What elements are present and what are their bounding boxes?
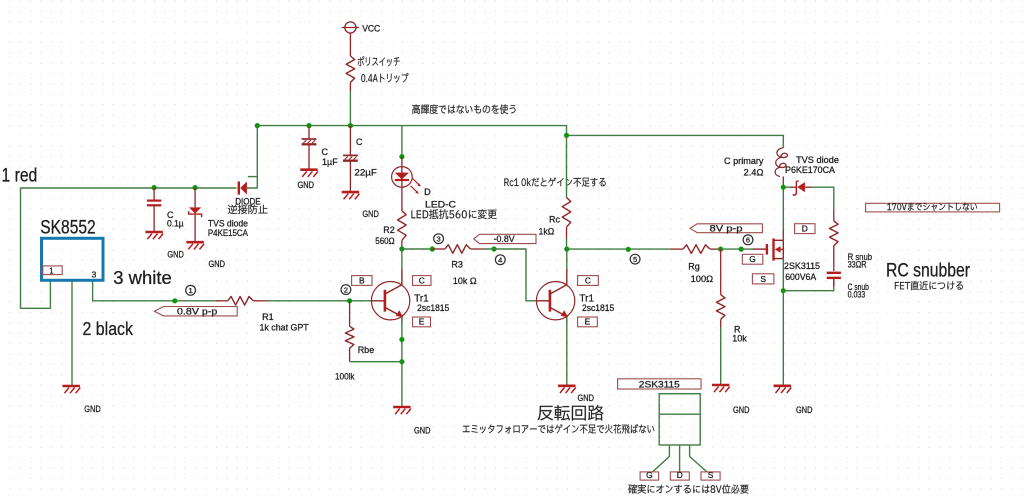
node emitter b <box>399 359 404 364</box>
pin box G pkg <box>640 472 659 480</box>
node flag1 <box>172 298 177 303</box>
resistor R snub <box>833 210 835 221</box>
svg-text:6: 6 <box>746 236 750 245</box>
svg-text:GND: GND <box>298 180 315 190</box>
transistor Tr1 second 2sc1815 <box>536 282 574 320</box>
ground C0.1u <box>145 231 162 234</box>
ground source <box>774 384 791 387</box>
node R3 right <box>491 246 496 251</box>
svg-text:S: S <box>760 274 766 284</box>
svg-text:5: 5 <box>633 255 637 264</box>
svg-text:GND: GND <box>733 405 750 415</box>
svg-text:1: 1 <box>49 266 53 275</box>
svg-text:Rc: Rc <box>549 215 560 225</box>
node bus left <box>255 123 260 128</box>
tvs diode D2 P4KE15CA <box>194 188 196 208</box>
node TVS1 top <box>193 185 198 190</box>
node R3 left <box>430 246 435 251</box>
svg-text:1kΩ: 1kΩ <box>539 227 555 237</box>
label high-brightness note <box>412 104 515 114</box>
svg-text:GND: GND <box>578 393 595 403</box>
node Rg right <box>718 247 723 252</box>
node emitter a <box>399 337 404 342</box>
svg-text:R3: R3 <box>451 259 463 269</box>
svg-text:600V6A: 600V6A <box>785 272 816 282</box>
capacitor C 22uF <box>349 126 351 155</box>
svg-text:GND: GND <box>167 249 184 259</box>
svg-text:Rg: Rg <box>688 262 700 272</box>
pin box G <box>742 254 763 264</box>
ic SK8552 body <box>42 238 104 280</box>
mosfet Q1 2SK3115 <box>741 248 753 250</box>
svg-text:G: G <box>749 254 756 264</box>
svg-text:R1: R1 <box>262 312 274 322</box>
wire R1 to base <box>267 300 372 302</box>
svg-text:LED-C: LED-C <box>425 199 457 209</box>
label 0.4A trip <box>361 73 408 83</box>
node 6 <box>743 235 753 245</box>
wire Rc to Rg <box>567 248 671 250</box>
svg-text:D: D <box>424 187 431 197</box>
resistor R2 560 <box>398 211 407 240</box>
wire Tr2 emitter <box>566 317 568 385</box>
pin box E Tr1 <box>413 317 431 327</box>
svg-text:RC snubber: RC snubber <box>886 260 970 281</box>
svg-text:0.033: 0.033 <box>848 290 866 300</box>
capacitor C 1uF <box>308 126 310 139</box>
inductor C primary <box>775 148 787 177</box>
svg-text:4: 4 <box>498 256 502 265</box>
wire R to gnd <box>720 327 722 384</box>
svg-text:22µF: 22µF <box>354 167 377 177</box>
resistor R3 10k <box>432 248 445 250</box>
label gyakusetsu-boushi <box>228 205 268 214</box>
svg-text:R2: R2 <box>383 225 395 235</box>
node gate <box>739 247 744 252</box>
wire bus to LED <box>401 126 403 157</box>
wire source <box>782 259 784 291</box>
pin box E Tr2 <box>578 317 598 327</box>
svg-text:GND: GND <box>209 259 226 269</box>
wire SK pin3 to R1 <box>93 281 216 301</box>
flag -0.8V <box>474 234 536 243</box>
pin box S pkg <box>701 472 720 480</box>
wire tvs to snubber <box>812 187 834 210</box>
flag 0.8V p-p <box>154 307 237 316</box>
svg-text:E: E <box>419 317 425 327</box>
ground C1uF <box>300 168 317 171</box>
wire Rc bottom <box>566 238 568 249</box>
svg-text:1k chat GPT: 1k chat GPT <box>260 323 310 333</box>
svg-text:560Ω: 560Ω <box>375 236 395 246</box>
svg-text:3: 3 <box>436 235 440 244</box>
label polyswitch <box>358 56 400 66</box>
ground Tr1 <box>393 406 410 409</box>
package leg D <box>679 445 681 472</box>
svg-text:SK8552: SK8552 <box>40 216 95 238</box>
label 8V required <box>628 484 748 493</box>
wire SK pin2 to gnd <box>71 281 73 386</box>
svg-text:8V p-p: 8V p-p <box>710 223 743 233</box>
svg-text:GND: GND <box>796 405 813 415</box>
svg-text:2sc1815: 2sc1815 <box>417 303 449 313</box>
svg-text:C: C <box>356 137 363 147</box>
node 5 dot <box>626 247 631 252</box>
node bus C1u <box>306 123 311 128</box>
pin box B Tr1 <box>352 276 372 286</box>
wire snubber return <box>833 279 835 287</box>
transistor Tr1 first 2sc1815 <box>371 282 409 320</box>
svg-text:2 black: 2 black <box>83 318 134 339</box>
diode D1 reverse protection <box>238 181 240 194</box>
node source <box>781 288 786 293</box>
svg-text:P4KE15CA: P4KE15CA <box>208 228 248 238</box>
svg-text:2sc1815: 2sc1815 <box>582 303 614 313</box>
pin box S <box>752 274 774 284</box>
wire top bus <box>257 126 783 148</box>
flag 8V p-p <box>690 224 762 233</box>
svg-text:TVS diode: TVS diode <box>796 155 839 165</box>
node 1 <box>186 285 196 295</box>
svg-text:D: D <box>677 470 683 480</box>
resistor Rc 1k <box>566 135 568 197</box>
wire Tr1 emitter <box>401 317 403 407</box>
wire R3 to Tr2 base <box>483 249 538 301</box>
node LED top <box>399 154 404 159</box>
svg-text:10k: 10k <box>732 333 747 343</box>
label 2SK3115 box <box>618 379 701 389</box>
led light arrows <box>413 179 420 186</box>
pin box D <box>795 224 815 234</box>
label 170V note <box>887 203 977 211</box>
ground SK pin2 <box>63 385 80 388</box>
pin box C Tr1 <box>413 276 432 286</box>
svg-text:1 red: 1 red <box>2 165 38 187</box>
wire stub <box>248 176 257 178</box>
svg-text:3: 3 <box>92 269 97 279</box>
node bus jog <box>564 133 569 138</box>
svg-text:100lk: 100lk <box>335 371 355 381</box>
svg-text:100Ω: 100Ω <box>691 274 714 284</box>
pin box C Tr2 <box>578 276 599 286</box>
svg-text:2.4Ω: 2.4Ω <box>744 167 764 177</box>
ground C22uF <box>342 191 359 194</box>
resistor R1 <box>228 297 254 306</box>
node Rc bottom <box>564 247 569 252</box>
package 2SK3115 outline <box>659 394 700 445</box>
ground Tr2 <box>558 384 575 387</box>
label LED resistor note <box>412 209 497 219</box>
ground R10k <box>712 384 729 387</box>
svg-text:3 white: 3 white <box>113 267 171 288</box>
node bus C22u <box>348 123 353 128</box>
svg-text:G: G <box>646 470 653 480</box>
tvs diode D3 P6KE170CA <box>783 186 790 188</box>
pin box 1 SK8552 <box>43 266 62 275</box>
svg-text:1µF: 1µF <box>322 157 338 167</box>
svg-text:33ΩR: 33ΩR <box>848 260 867 270</box>
wire rsnub to csnub <box>833 253 835 271</box>
svg-text:DIODE: DIODE <box>235 197 261 207</box>
wire diode to bus drop <box>247 126 257 188</box>
svg-text:D: D <box>802 224 808 234</box>
svg-text:-0.8V: -0.8V <box>494 234 515 244</box>
capacitor C snub <box>833 270 835 273</box>
resistor polyswitch <box>346 56 355 83</box>
label 170V note box <box>866 203 1000 212</box>
svg-text:GND: GND <box>362 209 379 219</box>
label hanten kairo <box>538 405 604 420</box>
node drain top <box>781 185 786 190</box>
resistor Rg 100 <box>670 248 683 250</box>
package leg G <box>653 445 670 472</box>
node 3 <box>434 234 444 244</box>
svg-text:Rbe: Rbe <box>358 345 375 355</box>
node 2 <box>341 285 351 295</box>
wire R2 to R3 <box>402 248 432 250</box>
svg-text:B: B <box>359 275 365 285</box>
led D LED-C <box>401 157 403 167</box>
svg-text:2SK3115: 2SK3115 <box>784 261 820 271</box>
power symbol VCC <box>345 22 356 33</box>
svg-text:0.1µ: 0.1µ <box>167 219 184 229</box>
wire drain <box>782 187 784 229</box>
label Rc note <box>504 177 605 186</box>
ground TVS1 <box>186 241 203 244</box>
label emitter follower note <box>463 424 655 433</box>
node R2 bottom <box>399 246 404 251</box>
resistor Rbe <box>349 301 351 326</box>
package leg S <box>690 445 707 472</box>
wire Rbe to emitter <box>350 361 402 363</box>
label FET note <box>895 281 963 290</box>
svg-text:TVS diode: TVS diode <box>208 218 248 228</box>
svg-text:10k Ω: 10k Ω <box>453 276 477 286</box>
wire Rg to gate <box>721 248 742 250</box>
svg-text:P6KE170CA: P6KE170CA <box>785 165 835 175</box>
svg-text:GND: GND <box>84 404 101 414</box>
svg-text:VCC: VCC <box>362 24 380 34</box>
svg-text:C: C <box>419 275 425 285</box>
svg-text:GND: GND <box>414 425 431 435</box>
wire 1 red <box>21 188 237 308</box>
wire source to gnd <box>782 291 784 386</box>
resistor R 10k <box>720 249 722 295</box>
svg-text:S: S <box>708 470 714 480</box>
svg-text:0.8V p-p: 0.8V p-p <box>177 306 217 316</box>
svg-text:C: C <box>322 147 329 157</box>
svg-text:C primary: C primary <box>724 156 764 166</box>
node Tr1 base <box>347 298 352 303</box>
svg-text:E: E <box>585 317 591 327</box>
node 5 <box>630 254 640 264</box>
svg-text:2: 2 <box>344 285 348 294</box>
svg-text:1: 1 <box>188 286 192 295</box>
pin box D pkg <box>670 472 689 480</box>
wire VCC to bus <box>349 91 351 126</box>
node 4 <box>495 255 505 265</box>
svg-text:C: C <box>585 275 591 285</box>
capacitor C 0.1u <box>153 188 155 200</box>
node C0.1u top <box>152 185 157 190</box>
svg-text:2SK3115: 2SK3115 <box>639 379 680 389</box>
